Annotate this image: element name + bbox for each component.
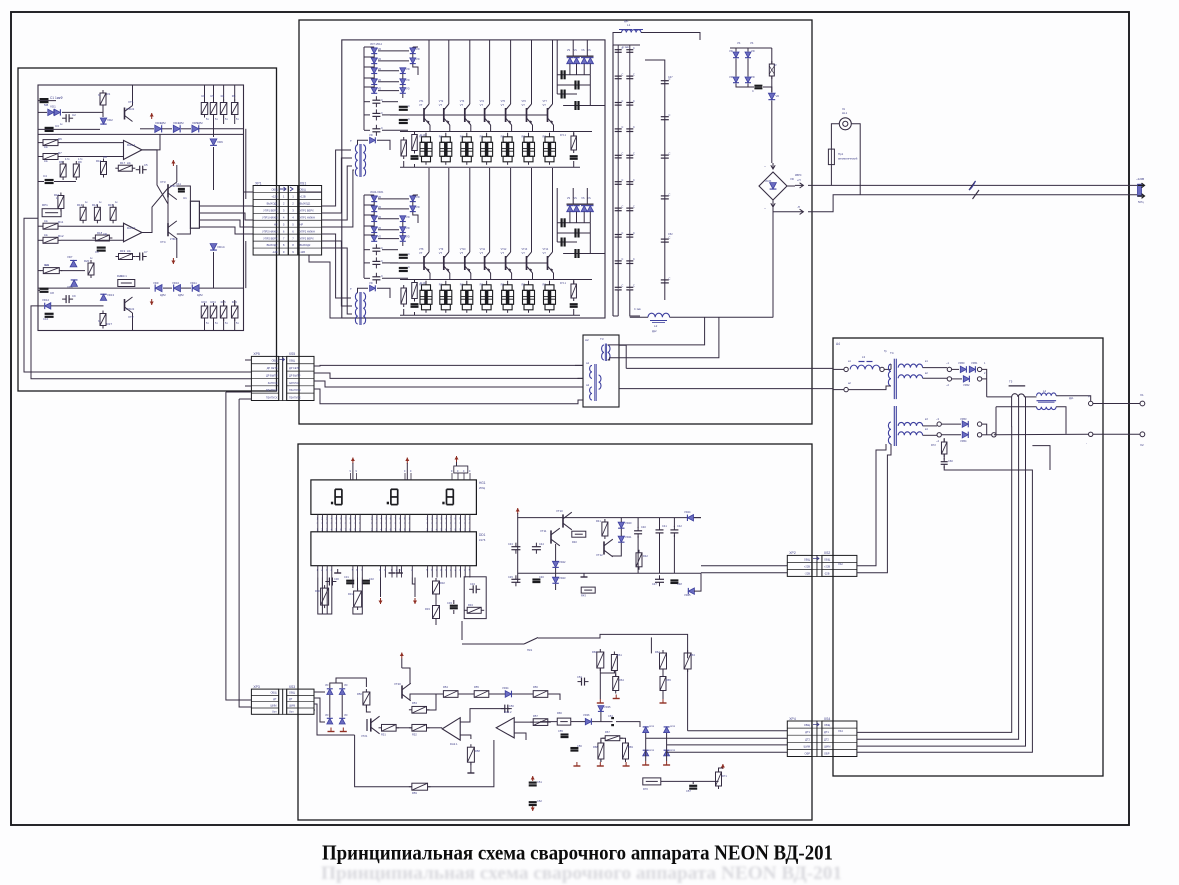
- current transformer T5 bar: [1009, 385, 1026, 387]
- capacitor C9: [62, 298, 66, 300]
- diode VD38: [664, 727, 670, 733]
- svg-text:С: С: [622, 258, 624, 261]
- svg-text:С: С: [633, 285, 635, 288]
- wire: [601, 738, 605, 743]
- wire: [38, 181, 44, 183]
- svg-text:VT: VT: [522, 251, 526, 255]
- wire: [177, 186, 191, 201]
- capacitor C51: [529, 781, 537, 783]
- svg-text:+П: +П: [797, 178, 801, 182]
- terminal output minus: [1089, 432, 1093, 436]
- svg-text:НР: НР: [300, 222, 304, 226]
- resistor R15: [112, 204, 114, 207]
- svg-text:С48: С48: [677, 582, 682, 586]
- svg-text:R66: R66: [557, 711, 562, 715]
- connector XP1 table: [253, 186, 279, 256]
- svg-text:VD: VD: [729, 49, 733, 53]
- svg-text:R68: R68: [593, 745, 598, 749]
- snubber R72: [943, 439, 945, 442]
- power arrow PSU: [517, 508, 519, 514]
- wire input lower: [833, 389, 844, 391]
- wire output bottom: [995, 407, 997, 435]
- power arrow display 3: [456, 456, 458, 462]
- resistor R53: [409, 709, 412, 711]
- wire: [102, 105, 104, 117]
- svg-text:+12В: +12В: [300, 195, 306, 199]
- svg-text:К176: К176: [479, 538, 486, 542]
- svg-text:С: С: [622, 100, 624, 103]
- wire lower bank collector feeds: [428, 168, 430, 188]
- svg-text:УПР1 ВЕРХ: УПР1 ВЕРХ: [300, 208, 314, 212]
- resistor R51: [379, 727, 382, 729]
- svg-text:VT: VT: [419, 251, 423, 255]
- wire: [38, 111, 47, 113]
- svg-text:VD: VD: [378, 47, 382, 51]
- svg-text:-П: -П: [797, 205, 800, 209]
- capacitor C52: [529, 801, 537, 803]
- svg-text:ВЫХОД1: ВЫХОД1: [300, 202, 311, 206]
- capacitor C53: [578, 681, 582, 683]
- resistor R18: [92, 237, 95, 239]
- transformer T3 windings: [602, 345, 604, 360]
- svg-text:С: С: [381, 126, 383, 130]
- svg-text:Др1: Др1: [624, 20, 629, 23]
- svg-text:RC: RC: [543, 136, 547, 139]
- svg-text:Т: Т: [350, 287, 352, 291]
- svg-text:R40: R40: [572, 540, 577, 544]
- potentiometer RP1: [42, 209, 61, 217]
- svg-text:VT9: VT9: [439, 248, 444, 251]
- diode VD104: [768, 93, 775, 99]
- transistor VT20: [401, 685, 403, 698]
- wire bridge bottom out: [773, 207, 795, 212]
- svg-text:R13: R13: [77, 203, 83, 207]
- svg-text:КД52: КД52: [197, 294, 203, 297]
- svg-text:VD: VD: [369, 281, 373, 285]
- resistor R8: [62, 161, 64, 164]
- svg-text:С54: С54: [608, 714, 613, 718]
- svg-text:А2: А2: [585, 338, 589, 342]
- svg-text:Х2: Х2: [1140, 443, 1144, 447]
- svg-text:ОБЩ: ОБЩ: [804, 723, 811, 727]
- svg-text:R17: R17: [120, 161, 126, 165]
- wire: [38, 133, 244, 135]
- svg-text:ПЗАПУСК: ПЗАПУСК: [289, 396, 301, 399]
- capacitor C7: [136, 256, 140, 258]
- svg-text:ДТ1: ДТ1: [805, 730, 810, 734]
- resistor R14: [96, 204, 98, 207]
- resistor R54: [440, 693, 443, 695]
- capacitor Cb: [664, 154, 666, 156]
- transistor VT10: [562, 514, 564, 527]
- connector XP2 table: [787, 555, 812, 576]
- svg-text:С: С: [633, 179, 635, 182]
- svg-text:R63: R63: [690, 653, 695, 657]
- capacitor Cb: [664, 238, 666, 240]
- transistor row up: [428, 40, 430, 104]
- wire: [613, 33, 622, 46]
- diode VD40: [664, 750, 670, 756]
- diode VD101: [745, 52, 751, 58]
- svg-text:С32: С32: [369, 577, 374, 581]
- capacitor C50: [501, 708, 505, 710]
- svg-text:VD: VD: [378, 57, 382, 61]
- power arrow display 1: [352, 458, 354, 464]
- svg-text:VT12: VT12: [501, 248, 507, 251]
- emitter bus up: [400, 131, 592, 133]
- diode VD39: [643, 750, 649, 756]
- svg-text:С: С: [633, 100, 635, 103]
- diode VD33: [339, 718, 345, 724]
- svg-text:R57: R57: [533, 714, 538, 718]
- svg-text:С2: С2: [72, 113, 76, 117]
- resistor R22 precision: [118, 280, 135, 287]
- svg-text:R 5.1: R 5.1: [560, 134, 567, 137]
- wire: [435, 578, 437, 581]
- svg-text:КТ3102: КТ3102: [126, 108, 135, 111]
- svg-text:ШИМ: ШИМ: [804, 744, 810, 748]
- wire PSU top rail: [518, 513, 701, 518]
- snubber right resistor dn: [573, 281, 575, 284]
- svg-text:VD: VD: [406, 235, 410, 239]
- svg-text:Uоп: Uоп: [272, 711, 277, 714]
- svg-text:R52: R52: [412, 733, 417, 737]
- svg-text:R 10: R 10: [420, 282, 426, 285]
- svg-text:VD: VD: [378, 87, 382, 91]
- svg-text:R2: R2: [202, 94, 206, 98]
- svg-text:ОБЩ: ОБЩ: [824, 723, 831, 727]
- wire: [38, 270, 41, 272]
- wire: [1093, 403, 1140, 405]
- resistor bank R23-R26: [204, 303, 206, 306]
- svg-text:ШИМ: ШИМ: [289, 704, 295, 707]
- svg-text:С 1мк: С 1мк: [622, 46, 630, 49]
- svg-text:VT: VT: [522, 103, 526, 107]
- diode VD31: [339, 689, 345, 695]
- resistor R57: [530, 721, 533, 723]
- svg-text:VT6: VT6: [522, 100, 527, 103]
- svg-text:L3: L3: [862, 355, 866, 359]
- resistor R20: [90, 260, 92, 263]
- svg-text:А4: А4: [836, 342, 840, 346]
- svg-text:VD: VD: [416, 205, 420, 209]
- wire: [358, 288, 369, 292]
- capacitor Cb: [664, 116, 666, 118]
- diode VD102: [733, 77, 739, 83]
- svg-text:R15: R15: [108, 203, 114, 207]
- 7-seg digit: [447, 488, 454, 490]
- diode VD5: [192, 125, 199, 132]
- svg-text:С60: С60: [948, 459, 953, 463]
- lower bus dn: [400, 314, 580, 316]
- resistor R70: [643, 778, 661, 785]
- svg-text:HL1: HL1: [842, 111, 848, 115]
- resistor R63: [687, 650, 689, 653]
- capacitor C32: [362, 580, 370, 582]
- resistor R43: [581, 587, 595, 593]
- resistor R56: [530, 693, 533, 695]
- svg-text:XP3: XP3: [253, 685, 260, 689]
- svg-text:ИЛЦ: ИЛЦ: [479, 486, 486, 490]
- diode VD103: [745, 77, 751, 83]
- svg-text:XP4: XP4: [789, 717, 796, 721]
- svg-text:С52: С52: [537, 799, 542, 803]
- svg-text:Пр1: Пр1: [838, 152, 844, 156]
- wire diode bus: [982, 369, 987, 397]
- resistor R71: [718, 769, 720, 772]
- terminal: [880, 367, 884, 371]
- svg-text:R33: R33: [425, 607, 430, 611]
- capacitor C40: [637, 527, 639, 531]
- svg-text:С52: С52: [668, 233, 673, 236]
- svg-text:R70: R70: [643, 787, 648, 791]
- wire pin bus left: [318, 578, 332, 615]
- svg-text:XP1: XP1: [255, 181, 262, 185]
- svg-text:VT5: VT5: [501, 100, 506, 103]
- svg-text:С: С: [408, 117, 410, 121]
- svg-text:НР: НР: [274, 222, 278, 226]
- wire vertical bus: [245, 129, 247, 199]
- diode VD8: [71, 280, 78, 286]
- svg-text:VD11: VD11: [190, 281, 197, 285]
- svg-text:R5: R5: [232, 94, 236, 98]
- wire: [943, 438, 945, 442]
- terminal: [977, 377, 981, 381]
- wire crossing X: [142, 188, 168, 233]
- diode column dn A: [371, 196, 377, 202]
- transformer Tdn: [355, 293, 357, 324]
- svg-text:ДТ: ДТ: [289, 698, 293, 701]
- svg-text:опто: опто: [649, 749, 655, 752]
- wire: [771, 48, 773, 64]
- svg-text:С: С: [622, 232, 624, 235]
- svg-text:R8: R8: [59, 160, 63, 164]
- capacitor bank C: [617, 260, 619, 262]
- svg-text:VD: VD: [344, 684, 348, 687]
- transistor VT2: [124, 299, 126, 311]
- capacitor C56: [570, 747, 578, 749]
- svg-text:VT13: VT13: [522, 248, 528, 251]
- diode VD11: [192, 285, 199, 292]
- svg-text:Т5: Т5: [1009, 380, 1013, 384]
- terminal: [977, 433, 981, 437]
- power arrow: [172, 160, 174, 166]
- power arrow: [414, 598, 416, 604]
- svg-text:С: С: [669, 236, 671, 240]
- svg-text:RC: RC: [460, 136, 464, 139]
- wire long feed to right block lower: [619, 388, 833, 390]
- wire: [223, 300, 225, 306]
- svg-text:Др1: Др1: [1069, 397, 1074, 400]
- diode VD53: [962, 421, 968, 427]
- svg-text:L4: L4: [1043, 389, 1047, 393]
- svg-text:ПЗАПУСК: ПЗАПУСК: [289, 389, 301, 392]
- stair wires dn: [556, 188, 558, 242]
- capacitor C5: [136, 169, 140, 171]
- svg-text:RC: RC: [522, 136, 526, 139]
- svg-text:VD: VD: [378, 78, 382, 82]
- wire: [890, 364, 892, 369]
- svg-text:R27: R27: [107, 322, 113, 326]
- board A2 power box: [299, 20, 812, 424]
- stair capacitors dn: [560, 218, 562, 227]
- svg-text:VD: VD: [378, 195, 382, 199]
- diode VD54: [962, 432, 968, 438]
- wire XP5 upper rows stubs: [245, 359, 251, 361]
- wire bridge to mains: [787, 185, 795, 187]
- svg-text:VT2: VT2: [128, 315, 134, 319]
- svg-text:220: 220: [103, 233, 108, 236]
- wire lamp right: [851, 124, 860, 195]
- wire: [38, 305, 44, 307]
- bridge rectifier VD105: [759, 172, 787, 200]
- svg-text:ДР ВЫПР: ДР ВЫПР: [266, 374, 278, 377]
- resistor R64: [615, 674, 617, 677]
- capacitor C10: [45, 313, 54, 315]
- display bottom pin stubs: [317, 514, 319, 531]
- svg-text:VD12: VD12: [42, 298, 49, 302]
- stair capacitors up: [560, 70, 562, 79]
- svg-text:VD: VD: [406, 226, 410, 230]
- capacitor Cb: [664, 195, 666, 197]
- diode VD52: [963, 376, 969, 382]
- resistor R16: [103, 159, 105, 162]
- zener VD22: [552, 561, 558, 567]
- svg-text:опто: опто: [670, 749, 676, 752]
- switch ПК1 wire: [462, 643, 524, 645]
- op-amp DA2.2 (left-pointing): [496, 718, 514, 738]
- svg-text:VS: VS: [567, 197, 571, 200]
- svg-text:КВРС: КВРС: [795, 174, 802, 177]
- capacitor bank C: [617, 154, 619, 156]
- svg-text:С3: С3: [55, 124, 59, 128]
- svg-text:R16: R16: [96, 159, 102, 163]
- wire signal to XP4: [688, 730, 788, 732]
- snubber row up: [425, 133, 427, 137]
- wire cluster feeds: [572, 40, 574, 56]
- svg-text:VT10: VT10: [556, 509, 563, 513]
- svg-text:VS: VS: [574, 197, 578, 200]
- svg-text:VD: VD: [416, 57, 420, 61]
- transformer T4 secondary w3: [898, 422, 922, 426]
- wire PSU to XP2: [701, 565, 787, 567]
- svg-text:XP2: XP2: [789, 551, 796, 555]
- svg-text:ОБЩ: ОБЩ: [271, 188, 278, 192]
- capacitor C100: [754, 85, 762, 87]
- wire amplifier chain: [410, 694, 443, 700]
- svg-text:VD36: VD36: [583, 713, 590, 717]
- svg-text:КД52: КД52: [160, 122, 166, 125]
- resistor R59 feedback: [409, 786, 412, 788]
- svg-text:VD: VD: [776, 94, 780, 98]
- resistor R55: [471, 693, 474, 695]
- svg-text:XS4: XS4: [824, 717, 831, 721]
- svg-text:R56: R56: [533, 685, 538, 689]
- diode VD25: [688, 588, 694, 594]
- svg-text:R18: R18: [97, 231, 103, 235]
- transformer T4 core: [893, 359, 895, 399]
- svg-text:VD: VD: [369, 133, 373, 137]
- resistor fuse R100: [771, 61, 773, 64]
- wire XS3 to input: [314, 691, 325, 693]
- transformer Tup: [355, 145, 357, 176]
- connector pin cols XP2: [812, 555, 817, 576]
- inductor L1 top: [622, 30, 642, 33]
- svg-text:L2: L2: [654, 324, 658, 328]
- svg-text:VS: VS: [581, 197, 585, 200]
- svg-text:VD35: VD35: [604, 705, 611, 709]
- transformer T4 secondary w1: [898, 364, 922, 368]
- wire: [401, 659, 403, 669]
- svg-text:VD21: VD21: [625, 535, 632, 539]
- ground: [645, 761, 647, 765]
- op-amp DA2.1 (left-pointing): [442, 718, 460, 740]
- diode VD34: [505, 691, 511, 698]
- svg-text:R58: R58: [475, 749, 480, 753]
- svg-text:RP1: RP1: [42, 203, 48, 207]
- svg-text:VD50: VD50: [958, 361, 965, 365]
- capacitor C46: [532, 578, 540, 580]
- svg-text:XS5: XS5: [289, 352, 296, 356]
- svg-text:С43: С43: [508, 542, 513, 546]
- svg-text:С: С: [408, 104, 410, 108]
- power arrow: [532, 806, 534, 811]
- svg-text:R65: R65: [666, 678, 671, 682]
- wire cap bank top: [613, 44, 640, 46]
- svg-text:VD: VD: [406, 215, 410, 219]
- wire: [38, 289, 40, 291]
- svg-text:VT: VT: [460, 251, 464, 255]
- wire A1 to XP5 drops: [24, 218, 251, 372]
- wire: [38, 100, 56, 102]
- svg-text:~: ~: [764, 207, 766, 211]
- svg-text:VD24: VD24: [684, 510, 691, 514]
- capacitor C4: [45, 179, 54, 181]
- svg-text:VD52: VD52: [963, 383, 970, 387]
- op-amp DA1.1: [124, 140, 142, 159]
- inductor L2 bottom: [648, 313, 670, 317]
- svg-text:ОБЩ: ОБЩ: [804, 557, 811, 561]
- svg-text:RC: RC: [480, 136, 484, 139]
- svg-text:220: 220: [103, 156, 108, 159]
- svg-text:VT20: VT20: [394, 682, 401, 686]
- capacitor group up: [375, 96, 377, 100]
- svg-text:С57: С57: [686, 789, 691, 793]
- capacitor C6: [97, 247, 106, 249]
- svg-text:R11: R11: [58, 220, 64, 224]
- wire: [1056, 396, 1091, 402]
- wire: [952, 368, 959, 370]
- capacitor C44: [535, 543, 537, 547]
- trim box: [464, 577, 486, 619]
- svg-text:-22В: -22В: [805, 571, 811, 575]
- svg-text:УПР2 НИЖН: УПР2 НИЖН: [262, 229, 278, 233]
- svg-text:Х1: Х1: [1140, 393, 1144, 397]
- svg-text:R62: R62: [655, 650, 660, 654]
- svg-text:ВЫХОД2: ВЫХОД2: [267, 243, 278, 247]
- resistor R12: [40, 239, 43, 241]
- resistor R33: [435, 603, 437, 606]
- svg-text:ОБР: ОБР: [824, 752, 830, 756]
- connector XP5 table (left): [251, 356, 278, 400]
- stair wires up: [556, 40, 558, 94]
- driver stage U1: [190, 201, 199, 228]
- capacitor bank C: [617, 128, 619, 130]
- svg-text:VD13: VD13: [107, 293, 114, 297]
- svg-text:VD2: VD2: [107, 118, 113, 122]
- wire bottom rail: [630, 316, 648, 318]
- resistor bank R2-R5: [204, 100, 206, 103]
